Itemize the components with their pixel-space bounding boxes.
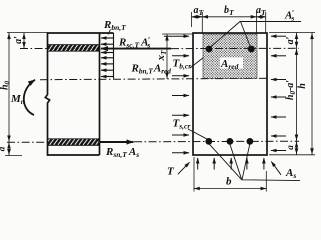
wire: beam right edge xyxy=(99,33,101,155)
svg-text:a′: a′ xyxy=(13,36,24,44)
moment arc M_n xyxy=(24,80,35,115)
svg-text:a: a xyxy=(285,145,295,150)
svg-text:a: a xyxy=(0,146,7,151)
stress arrows R_bn,T (compression zone) xyxy=(101,37,114,39)
leaders from A's dots to label line xyxy=(210,22,301,48)
dimension line a' (top-left) xyxy=(23,33,25,49)
svg-text:h0: h0 xyxy=(0,80,12,90)
right dimension line 1: a' / h0-a' / a xyxy=(296,33,298,155)
temperature arrows right side xyxy=(271,35,286,37)
bottom rebar dots As xyxy=(205,138,212,145)
force arrow R_sn,T As (bold, tension steel) xyxy=(100,141,134,143)
temperature arrows left side xyxy=(164,35,189,37)
svg-text:A′s: A′s xyxy=(284,9,294,23)
bottom dimension b xyxy=(193,157,195,192)
svg-text:h: h xyxy=(297,83,308,89)
label R_bn,T (top) xyxy=(103,19,126,35)
dimension line h0 (left) xyxy=(8,33,10,143)
svg-text:xT: xT xyxy=(155,50,168,62)
svg-text:b: b xyxy=(226,176,232,188)
dimension segment a (bottom-left) xyxy=(8,142,10,156)
dash-dot line at A's level xyxy=(20,48,48,50)
left dimension: extension lines xyxy=(7,32,48,34)
dash-dot line at As level xyxy=(7,141,48,143)
svg-text:h0-a′: h0-a′ xyxy=(285,80,297,100)
svg-text:aT: aT xyxy=(194,5,205,17)
svg-text:Rbn,TAred: Rbn,TAred xyxy=(131,63,172,76)
svg-text:a′: a′ xyxy=(285,36,296,44)
stress block right edge xyxy=(113,33,115,79)
top rebar dots A's xyxy=(206,46,213,53)
neutral axis dash-dot xyxy=(40,78,267,79)
hatched strip A's (top reinforcement, side view) xyxy=(48,45,99,52)
leaders from As dots to label line xyxy=(210,144,301,180)
label A_red (inside stipple) xyxy=(220,58,243,72)
svg-text:Rsc,TA′s: Rsc,TA′s xyxy=(118,35,151,49)
temperature arrows bottom xyxy=(197,158,199,170)
leader T_b,cr xyxy=(190,58,204,69)
right dimension line 2: h xyxy=(311,33,313,155)
hatched strip As (bottom reinforcement, side view) xyxy=(48,139,99,146)
svg-text:Rsn,TAs: Rsn,TAs xyxy=(105,146,139,159)
section outline xyxy=(193,33,267,155)
beam outline (side view) with break in left edge xyxy=(45,33,113,155)
svg-text:T: T xyxy=(167,166,175,178)
svg-text:Tb,cr: Tb,cr xyxy=(173,58,192,71)
top dimension aT bT aT xyxy=(192,16,267,18)
svg-text:Mn: Mn xyxy=(10,93,25,106)
svg-text:aT: aT xyxy=(256,5,267,17)
force arrow R_sc,T A's (bold) xyxy=(101,48,171,50)
corner arrow bottom-right xyxy=(271,162,281,175)
right dimension extension lines xyxy=(269,32,315,34)
x_T dimension xyxy=(162,33,193,35)
svg-text:Rbn,T: Rbn,T xyxy=(103,19,126,32)
corner arrow bottom-left (T) xyxy=(178,162,190,174)
reduced section A_red stipple xyxy=(203,34,257,78)
svg-text:As: As xyxy=(285,167,296,180)
svg-text:bT: bT xyxy=(224,5,235,17)
leader T_s,cr xyxy=(188,129,208,139)
svg-text:Ts,cr: Ts,cr xyxy=(173,118,191,131)
